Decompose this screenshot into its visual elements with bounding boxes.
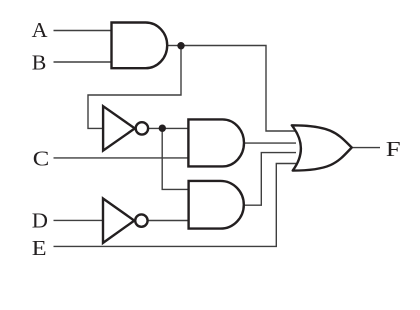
OR gate U4 (4 inputs, output F): [292, 125, 352, 170]
svg-text:B: B: [32, 51, 47, 75]
inverter NOT2 bubble: [135, 214, 147, 226]
svg-text:E: E: [32, 236, 47, 260]
svg-text:A: A: [32, 18, 48, 42]
wire B: [54, 61, 112, 63]
wire node J2 down to AND3 input: [162, 128, 190, 189]
wire AND3 output to OR input 3: [244, 153, 296, 206]
node J2 junction dot: [159, 125, 166, 132]
svg-text:C: C: [33, 146, 50, 170]
inverter NOT1 bubble: [136, 122, 148, 134]
wire AND2 output to OR input 2: [245, 142, 296, 144]
inverter NOT1 triangle: [103, 106, 135, 150]
wire E to OR input 4: [54, 164, 297, 247]
node J1 junction dot: [177, 42, 184, 49]
wire C: [54, 157, 191, 159]
wire NOT1 output to AND2 input: [149, 127, 190, 129]
wire A: [54, 30, 112, 32]
wire node J1 down to NOT1 input: [88, 46, 181, 129]
inverter NOT2 triangle: [103, 199, 134, 243]
svg-text:D: D: [32, 208, 48, 232]
wire F output: [352, 147, 381, 149]
AND gate U3 (inputs J2, NOT2 out): [189, 181, 244, 229]
AND gate U1 (inputs A,B): [112, 23, 168, 69]
AND gate U2 (inputs NOT1 out, C): [188, 119, 244, 166]
wire NOT2 output to AND3 input: [148, 220, 190, 222]
svg-text:F: F: [386, 137, 401, 161]
wire D: [54, 219, 105, 221]
wire node J1 to OR input 1: [181, 46, 296, 132]
wire AND1 output to node J1: [168, 45, 181, 47]
